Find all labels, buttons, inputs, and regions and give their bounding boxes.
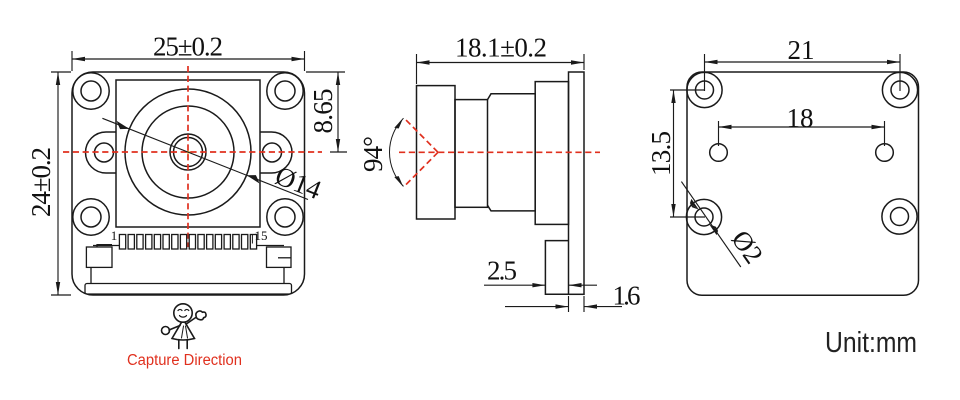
dim 25 line	[72, 58, 305, 60]
right pad leg	[283, 267, 285, 283]
left ear lug	[86, 132, 117, 173]
dim 24 extension lines	[51, 72, 71, 295]
dim 13.5 arrows	[671, 90, 675, 103]
dim 1.6 arrows	[556, 304, 569, 308]
dim 24 arrows	[56, 72, 60, 85]
front mounting hole bottom-right	[267, 199, 303, 235]
pcb bottom extension lines	[569, 296, 585, 312]
dim 13.5 extension lines	[670, 90, 705, 217]
dia14 arrows	[117, 121, 130, 129]
fov arc arrows	[394, 118, 403, 129]
svg-text:18: 18	[787, 103, 814, 133]
fov lower ray	[404, 152, 438, 186]
dim 8.65 arrows	[336, 72, 340, 85]
front view board outline	[72, 72, 305, 295]
dim 25 arrows	[72, 57, 85, 61]
dim 24 line	[57, 72, 59, 295]
dim 18 line	[719, 126, 885, 128]
right ear hole	[263, 143, 282, 162]
back hole top-right	[882, 72, 917, 107]
svg-text:1: 1	[111, 228, 118, 243]
dim 2.5 arrows	[532, 283, 545, 287]
dim 8.65 extension line	[306, 71, 345, 73]
front mounting hole bottom-left	[73, 199, 109, 235]
svg-text:13.5: 13.5	[646, 131, 676, 176]
lens aperture outer	[170, 134, 206, 170]
mount flange section	[535, 82, 568, 225]
svg-text:Ø2: Ø2	[726, 225, 770, 269]
svg-text:Unit:mm: Unit:mm	[825, 327, 917, 359]
dim 2.5 lines	[484, 284, 597, 286]
dia2 arrows	[690, 199, 699, 210]
front mounting hole top-right	[267, 73, 303, 109]
right pad notch line	[278, 257, 291, 259]
svg-text:Capture Direction: Capture Direction	[127, 352, 242, 369]
lens center mark	[185, 149, 191, 155]
dia2 leader line	[681, 182, 740, 267]
sensor housing square	[116, 80, 260, 227]
dim 1.6 lines	[505, 306, 622, 308]
lens outer circle	[125, 89, 251, 215]
dim 18 extension lines	[719, 121, 885, 146]
back small hole right	[876, 144, 894, 162]
back hole bottom-right	[882, 199, 917, 234]
fov angle arc	[389, 118, 403, 186]
left ear hole	[95, 143, 114, 162]
svg-text:8.65: 8.65	[308, 89, 338, 134]
back plate outline	[687, 72, 919, 295]
svg-text:94°: 94°	[358, 136, 388, 172]
lens barrel front section	[417, 86, 456, 219]
back hole top-left	[687, 72, 722, 107]
svg-text:Ø14: Ø14	[271, 160, 326, 205]
dim 25 extension lines	[72, 51, 305, 71]
connector right trace	[257, 245, 284, 247]
back hole bottom-left	[686, 199, 721, 234]
front horizontal centerline	[63, 151, 322, 153]
centerline right extension	[330, 151, 347, 153]
dim 18.1 extension lines	[417, 54, 585, 84]
barrel groove section	[455, 100, 488, 208]
dia14 leader line	[102, 118, 308, 199]
front mounting hole top-left	[73, 73, 109, 109]
svg-text:24±0.2: 24±0.2	[26, 147, 56, 217]
dim 13.5 line	[673, 90, 675, 217]
front vertical centerline	[187, 66, 189, 247]
connector left trace	[93, 245, 119, 247]
svg-text:25±0.2: 25±0.2	[153, 32, 223, 62]
dim 21 extension lines	[705, 54, 901, 91]
left pad lip	[97, 245, 112, 247]
barrel mid section	[488, 94, 536, 211]
svg-text:15: 15	[255, 228, 268, 243]
side view centerline	[399, 151, 600, 153]
back small hole left	[710, 144, 728, 162]
dim 18.1 line	[417, 62, 585, 64]
right ear lug	[260, 132, 292, 173]
right pad square	[267, 247, 292, 267]
left pad square	[86, 247, 112, 267]
pcb side	[569, 72, 585, 294]
side connector	[545, 241, 568, 295]
dim 8.65 line	[337, 72, 339, 152]
svg-text:18.1±0.2: 18.1±0.2	[455, 33, 547, 63]
lens aperture inner	[174, 138, 203, 167]
svg-text:2.5: 2.5	[487, 256, 517, 286]
capture direction figure	[162, 304, 207, 349]
dim 21 line	[705, 61, 901, 63]
dim 18 arrows	[719, 125, 732, 129]
fov upper ray	[404, 118, 438, 152]
connector pin row	[119, 235, 256, 250]
bottom connector bar	[85, 284, 292, 295]
svg-text:1.6: 1.6	[613, 281, 641, 311]
lens inner ring	[142, 106, 234, 198]
svg-text:21: 21	[788, 35, 815, 65]
dim 21 arrows	[705, 60, 718, 64]
left pad leg	[90, 267, 92, 283]
dim 18.1 arrows	[417, 60, 430, 64]
